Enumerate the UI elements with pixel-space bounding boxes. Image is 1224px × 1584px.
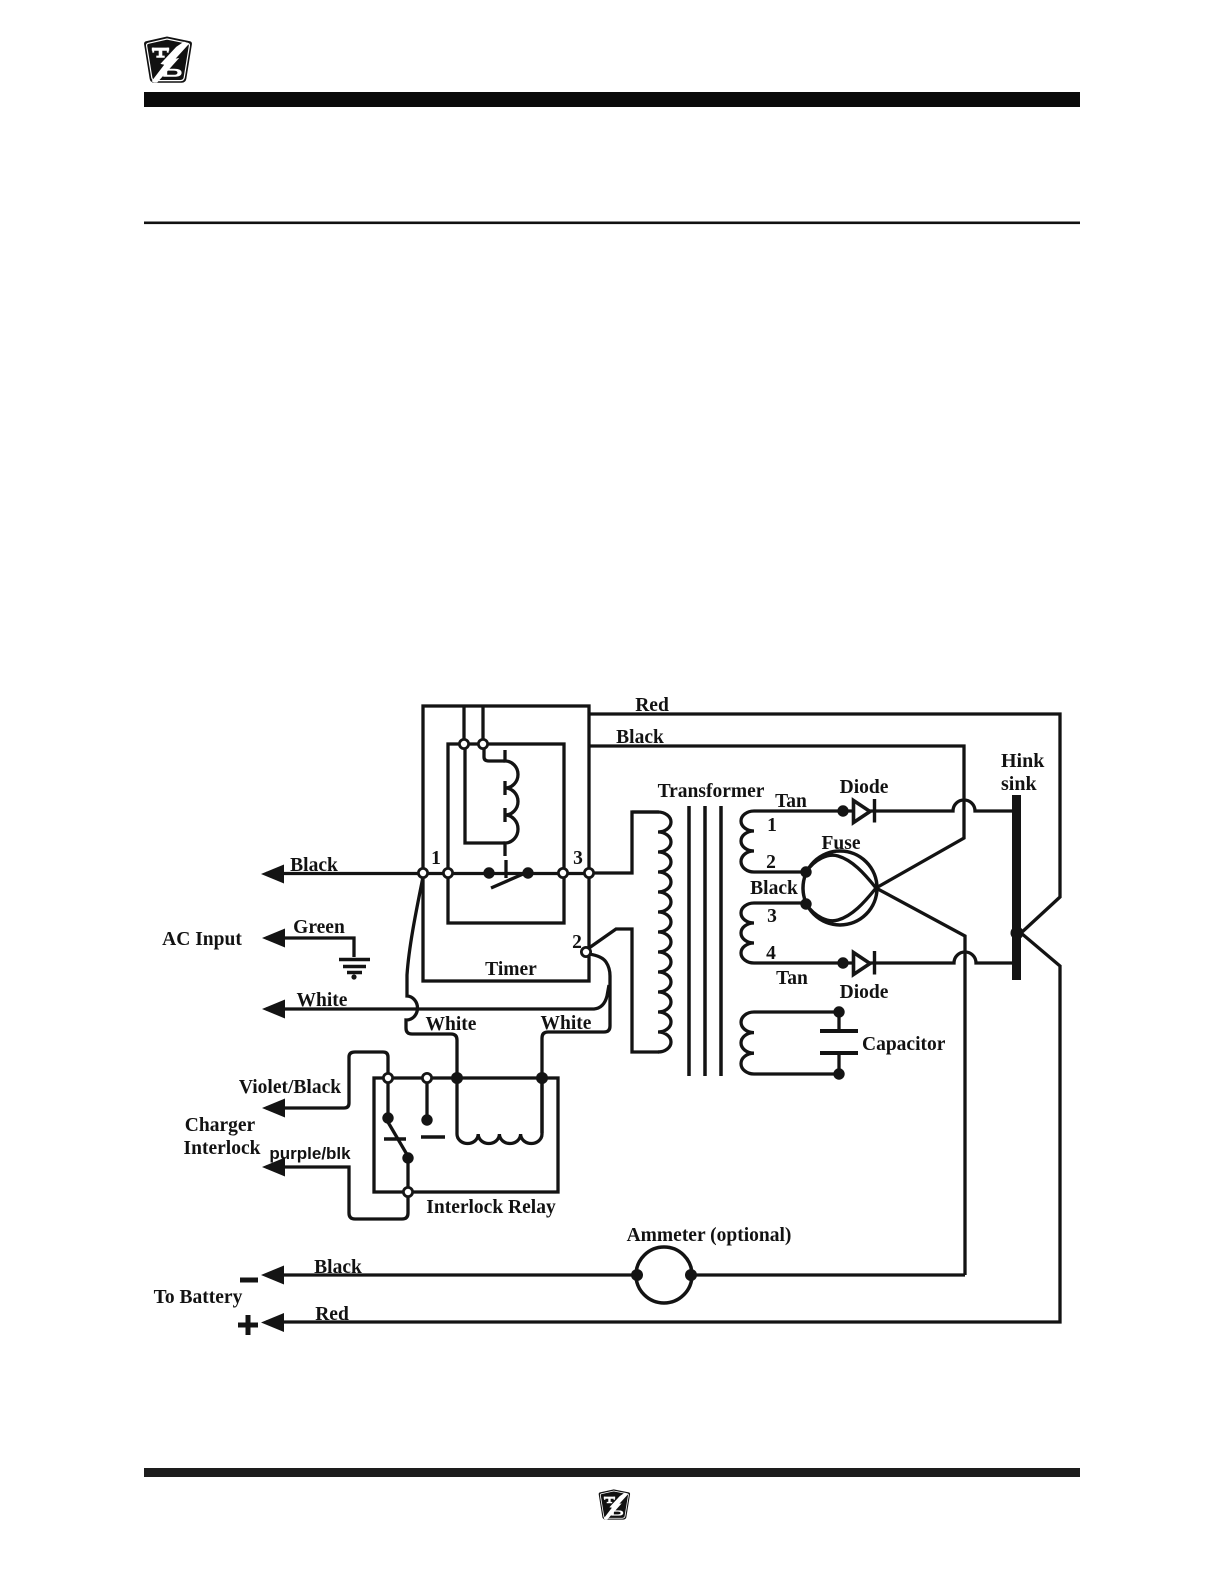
fuse element upper	[806, 855, 876, 888]
junction dot: tap1 diode anode	[837, 805, 848, 816]
svg-text:sink: sink	[1001, 773, 1037, 795]
wire: timer coil return	[465, 748, 505, 843]
wire: red line from timer to right side	[266, 714, 1060, 1322]
svg-text:To Battery: To Battery	[154, 1287, 243, 1308]
heat sink bar	[1012, 795, 1021, 980]
terminal: timer coil b	[478, 739, 487, 748]
junction dot: heat sink collector	[1011, 927, 1024, 940]
svg-text:Timer: Timer	[485, 959, 537, 980]
arrowhead: AC black	[261, 865, 284, 884]
diode D1 cathode bar	[873, 799, 876, 823]
timer switch blade	[491, 871, 530, 888]
junction dot: tap4 diode anode	[837, 957, 848, 968]
arrowhead: AC green	[262, 929, 285, 948]
fuse element lower	[806, 888, 876, 921]
logo: TD shield (header, top-left)	[144, 37, 192, 83]
svg-text:White: White	[426, 1014, 477, 1035]
svg-text:Charger: Charger	[185, 1115, 256, 1136]
svg-text:3: 3	[573, 848, 583, 869]
svg-text:purple/blk: purple/blk	[269, 1144, 351, 1163]
wire: timer pin 2 to transformer primary bottom	[589, 929, 659, 1052]
terminal: relay contact 2 rail	[422, 1073, 431, 1082]
relay contact 2 stem	[425, 1083, 428, 1115]
svg-text:Black: Black	[314, 1257, 362, 1278]
terminal: timer node 1 inner	[443, 868, 452, 877]
junction dot: timer switch right	[522, 867, 533, 878]
svg-text:Interlock Relay: Interlock Relay	[426, 1197, 556, 1218]
terminal: timer node 1 outer	[418, 868, 427, 877]
arrowhead: battery negative	[261, 1266, 284, 1285]
relay coil K1	[457, 1083, 542, 1144]
svg-text:Red: Red	[315, 1304, 349, 1325]
relay contact 1 lower stem	[406, 1162, 409, 1188]
junction dot: ammeter left	[631, 1269, 643, 1281]
svg-text:White: White	[297, 990, 348, 1011]
ground symbol line 1	[339, 958, 370, 962]
svg-text:Tan: Tan	[776, 968, 808, 989]
svg-text:Ammeter (optional): Ammeter (optional)	[627, 1225, 792, 1246]
capacitor C1 bottom stub	[837, 1054, 840, 1074]
capacitor C1 top stub	[837, 1012, 840, 1030]
relay dash link 1	[384, 1137, 406, 1141]
terminal: relay contact 1 rail	[383, 1073, 392, 1082]
wire: relay output to purple/blk	[266, 1167, 408, 1219]
junction dot: fuse upper terminal	[800, 866, 811, 877]
capacitor C1 top plate	[820, 1029, 858, 1033]
svg-text:Transformer: Transformer	[658, 781, 765, 802]
timer coil L1	[505, 750, 518, 856]
relay contact 1 stem	[386, 1083, 389, 1113]
timer coil elbow wire	[484, 747, 505, 761]
junction dot: relay rail white2	[536, 1072, 548, 1084]
wire: timer node 3 to transformer primary top	[593, 812, 659, 873]
svg-text:Fuse: Fuse	[822, 833, 861, 854]
timer coil spine tick 1	[503, 781, 506, 795]
svg-text:White: White	[541, 1013, 592, 1034]
battery plus sign horizontal	[238, 1323, 258, 1328]
svg-text:Interlock: Interlock	[184, 1138, 261, 1159]
junction dot: capacitor bottom	[833, 1068, 844, 1079]
timer switch fixed tick	[504, 860, 507, 878]
wire: ammeter to black vertical	[692, 1273, 965, 1276]
wire: black line from timer to fuse	[589, 746, 964, 888]
svg-text:Black: Black	[290, 855, 338, 876]
relay dash link 2	[421, 1135, 445, 1139]
svg-text:AC Input: AC Input	[162, 929, 242, 950]
svg-text:Diode: Diode	[840, 982, 889, 1003]
svg-text:Diode: Diode	[840, 777, 889, 798]
footer bar	[144, 1468, 1080, 1477]
timer inner box	[448, 744, 564, 923]
junction dot: relay contact 1 top	[382, 1112, 393, 1123]
battery minus sign	[240, 1278, 258, 1283]
wire: pin 2 / white down to relay coil	[542, 954, 610, 1133]
junction dot: fuse lower terminal	[800, 898, 811, 909]
svg-text:Green: Green	[293, 917, 345, 938]
svg-text:2: 2	[766, 852, 776, 873]
fuse body F1	[803, 851, 877, 925]
junction dot: relay contact 1 bottom	[402, 1152, 413, 1163]
ground dot	[351, 974, 356, 979]
battery plus sign vertical	[246, 1315, 251, 1335]
transformer primary winding T1	[632, 812, 671, 1052]
transformer secondary winding taps 1-2	[741, 811, 843, 872]
logo: TD shield (footer, centered)	[599, 1489, 630, 1519]
header thin rule	[144, 222, 1080, 225]
transformer core line 2	[703, 806, 707, 1076]
svg-text:1: 1	[767, 815, 777, 836]
timer coil spine tick 2	[503, 808, 506, 822]
header black bar	[144, 92, 1080, 107]
diode D2 cathode bar	[873, 951, 876, 975]
wire: timer coil lead a	[462, 706, 465, 744]
terminal circles (open)	[383, 739, 593, 1196]
diode D2 triangle	[854, 953, 871, 975]
svg-text:Capacitor: Capacitor	[862, 1034, 946, 1055]
wire: violet/black to relay contact	[266, 1052, 388, 1108]
svg-text:Tan: Tan	[775, 791, 807, 812]
arrowhead: battery positive	[261, 1313, 284, 1332]
wire: node 1 drop to interlock rail (hop over white)	[406, 877, 457, 1078]
wire: white AC input	[266, 985, 609, 1009]
transformer secondary winding taps 3-4	[741, 903, 843, 963]
wire: AC black line through timer (node 1 to node 3)	[266, 872, 593, 875]
wire: tan bottom (tap4 to heat sink, hop over black)	[843, 952, 1012, 963]
ground symbol line 3	[347, 971, 362, 975]
relay contact 1 blade	[385, 1117, 409, 1158]
terminal: relay output	[403, 1187, 412, 1196]
wire: green to ground	[266, 938, 354, 957]
junction dot: relay rail white1	[451, 1072, 463, 1084]
junction dot: capacitor top	[833, 1006, 844, 1017]
svg-text:Violet/Black: Violet/Black	[239, 1077, 341, 1098]
arrowhead: purple/blk	[262, 1158, 285, 1177]
terminal: timer pin 2	[581, 947, 590, 956]
junction dot: ammeter right	[685, 1269, 697, 1281]
svg-text:Black: Black	[750, 878, 798, 899]
arrowhead: violet/black	[262, 1099, 285, 1118]
transformer core line 3	[719, 806, 723, 1076]
svg-text:4: 4	[766, 943, 776, 964]
svg-text:Hink: Hink	[1001, 750, 1045, 772]
transformer auxiliary winding (capacitor)	[741, 1012, 839, 1074]
wire: fuse to ammeter vertical	[876, 888, 965, 1275]
interlock relay box	[374, 1078, 558, 1192]
junction dot: relay contact 2	[421, 1114, 432, 1125]
wire: timer coil lead b	[481, 706, 484, 744]
svg-text:2: 2	[572, 932, 582, 953]
capacitor C1 bottom plate	[820, 1051, 858, 1055]
arrowhead: AC white	[262, 1000, 285, 1019]
junction dot: timer switch left	[483, 867, 494, 878]
diode D1 triangle	[854, 801, 871, 823]
svg-text:Black: Black	[616, 727, 664, 748]
terminal: timer node 3 inner	[558, 868, 567, 877]
svg-text:1: 1	[431, 848, 441, 869]
timer outer box	[423, 706, 589, 981]
terminal: timer coil a	[459, 739, 468, 748]
svg-text:3: 3	[767, 906, 777, 927]
ammeter M1 body	[636, 1247, 692, 1303]
svg-text:Red: Red	[635, 695, 669, 716]
terminal: timer node 3 outer	[584, 868, 593, 877]
wire: battery negative to ammeter	[266, 1273, 636, 1276]
transformer core line 1	[687, 806, 691, 1076]
ground symbol line 2	[343, 965, 366, 969]
wire: tan top (tap1 to heat sink, hop over black)	[843, 800, 1012, 811]
